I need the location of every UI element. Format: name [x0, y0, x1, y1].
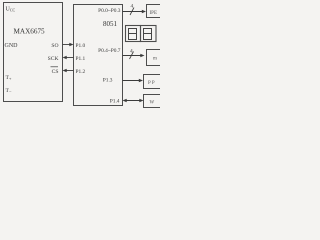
svg-text:SO: SO — [51, 43, 58, 49]
svg-text:4: 4 — [130, 49, 133, 55]
keyboard block — [144, 95, 163, 108]
bus P0.4-P0.7 to digit driver — [123, 55, 144, 57]
svg-text:P0.0~P0.3: P0.0~P0.3 — [98, 8, 121, 14]
svg-text:UCC: UCC — [6, 7, 16, 13]
svg-text:4: 4 — [131, 4, 134, 10]
svg-text:8051: 8051 — [103, 20, 118, 28]
svg-text:W: W — [150, 100, 155, 105]
svg-text:P1.2: P1.2 — [76, 69, 86, 75]
svg-text:T+: T+ — [6, 75, 12, 81]
bus P0.0-P0.3 to segment driver — [123, 11, 145, 13]
wire P1.3 to alarm — [123, 80, 142, 82]
svg-text:SCK: SCK — [48, 56, 59, 62]
svg-text:P P: P P — [148, 81, 155, 86]
wire SCK to P1.1 — [64, 57, 74, 59]
digit driver block — [147, 50, 164, 66]
LED display digit 1 — [126, 26, 141, 42]
wire SO to P1.0 — [63, 44, 73, 46]
svg-text:IPE: IPE — [150, 11, 158, 16]
svg-text:GND: GND — [5, 43, 19, 49]
svg-text:MAX6675: MAX6675 — [14, 28, 46, 36]
svg-text:P0.4~P0.7: P0.4~P0.7 — [98, 48, 121, 54]
svg-text:P1.1: P1.1 — [76, 56, 86, 62]
wire keyboard to P1.4 (bidirectional) — [124, 100, 143, 102]
wire CS to P1.2 — [64, 70, 74, 72]
svg-text:CS: CS — [52, 69, 59, 75]
svg-text:m: m — [153, 57, 157, 62]
LED display digit 2 — [141, 26, 157, 42]
alarm block — [144, 75, 163, 89]
svg-text:P1.0: P1.0 — [76, 43, 86, 49]
segment driver block — [147, 5, 164, 18]
svg-text:P1.3: P1.3 — [103, 78, 113, 84]
svg-text:T−: T− — [6, 88, 12, 94]
MAX6675 U1 box — [4, 3, 63, 102]
svg-text:P1.4: P1.4 — [110, 98, 120, 104]
MCU 8051 box — [74, 5, 123, 106]
